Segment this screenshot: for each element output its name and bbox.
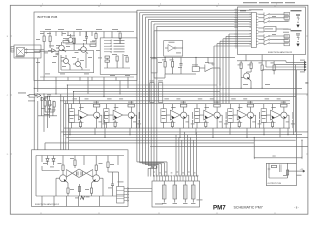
capacitor C102 bbox=[83, 32, 88, 45]
wires from bottom pcb down to bus bbox=[56, 77, 128, 97]
wire y31 to crystal bbox=[154, 31, 251, 58]
left cluster lower wire bbox=[44, 112, 54, 118]
mid circuit wires bbox=[154, 68, 220, 85]
resistor R103 bbox=[71, 36, 75, 51]
bus wire y140 bbox=[69, 139, 296, 141]
diode D2 bbox=[50, 156, 55, 168]
bus wire y85 bbox=[67, 85, 217, 104]
component block K1 bbox=[150, 81, 155, 103]
connector strip J2 bbox=[251, 13, 256, 48]
wire power to fg board left bbox=[33, 98, 35, 150]
mains wires to bottom pcb bbox=[25, 49, 45, 53]
gate G6 bbox=[258, 41, 288, 45]
tiny print line top right bbox=[243, 2, 295, 3]
connector pin list in sub-board bbox=[104, 40, 125, 53]
sub-board box upper right bbox=[100, 38, 137, 74]
coupling capacitor Ca bbox=[77, 172, 79, 176]
output transformer T2 bbox=[173, 181, 178, 204]
sub-board box lower left bbox=[59, 51, 94, 73]
bus wire y94 bbox=[34, 93, 308, 95]
resistor R102 bbox=[47, 33, 51, 48]
bus drops into amp connector bbox=[176, 132, 196, 177]
potentiometer P2 bbox=[296, 34, 300, 46]
wire mains down left bbox=[33, 58, 35, 96]
label VOL CON upper bbox=[291, 10, 302, 11]
svg-text:FUNCTION GEN PCB 1/2: FUNCTION GEN PCB 1/2 bbox=[35, 204, 60, 206]
diode D1 bbox=[43, 156, 49, 166]
resistor R402 bbox=[95, 163, 102, 171]
resistor R301 bbox=[238, 61, 243, 89]
fg1 mid components bbox=[56, 178, 103, 198]
op-amp U202 bbox=[199, 57, 220, 71]
label A right edge bbox=[305, 82, 308, 85]
svg-text:SCHEMATIC PM7: SCHEMATIC PM7 bbox=[234, 206, 263, 210]
amplifier stage 3 (transistor pair) bbox=[161, 99, 195, 129]
resistor R105 horizontal bbox=[63, 38, 69, 43]
resistor R120 bbox=[42, 97, 47, 112]
transistor Q102 bbox=[78, 43, 88, 54]
resistor R302 bbox=[248, 61, 253, 72]
amp pcb connector box bbox=[152, 181, 200, 207]
bottom pcb wire y51 bbox=[34, 50, 59, 52]
fg board riser wires bbox=[61, 94, 69, 150]
bottom pcb rail drop wires bbox=[44, 32, 92, 37]
fg2 bottom drops bbox=[246, 55, 262, 61]
transistor Q104 bbox=[61, 55, 70, 65]
bottom pcb misc flecks bbox=[45, 29, 118, 74]
resistor R202 bbox=[170, 57, 174, 74]
amplifier row rail drops bbox=[70, 128, 288, 137]
crystal X1 bbox=[151, 57, 162, 78]
wire junction dots bbox=[34, 57, 303, 141]
svg-text:OUTPUT PCB: OUTPUT PCB bbox=[268, 183, 282, 185]
label MAINS PCB bbox=[16, 56, 25, 57]
bus wire y88 bbox=[34, 87, 302, 89]
bottom pcb bottom rail wire bbox=[40, 76, 134, 78]
fg1 top rail bbox=[36, 155, 124, 157]
fg1 right connector bbox=[117, 182, 129, 204]
output pcb lower fleck bbox=[297, 174, 302, 177]
component block K2 bbox=[158, 81, 163, 103]
wire to output arrow 2 bbox=[274, 64, 306, 66]
resistor R104 bbox=[117, 31, 121, 44]
capacitor C201 bbox=[178, 57, 183, 74]
bus wire y146 bbox=[150, 145, 308, 147]
bus wire y132 bbox=[61, 131, 308, 133]
amp pcb label flecks bbox=[155, 200, 203, 205]
bus wire y135 bbox=[64, 134, 302, 136]
transistor Q401 bbox=[56, 171, 68, 184]
transistor Q106 bbox=[66, 34, 75, 44]
sub-board right components bbox=[104, 54, 130, 68]
sub-board2 feed wires bbox=[104, 32, 120, 45]
bottom pcb lower drop wires bbox=[44, 77, 128, 81]
IC U201 bbox=[192, 57, 199, 71]
mains connector bbox=[17, 48, 25, 56]
svg-text:PM7: PM7 bbox=[213, 204, 226, 211]
bottom pcb wire y44 bbox=[66, 38, 97, 44]
left frame edge connector bbox=[11, 47, 14, 53]
resistor R403 bbox=[70, 158, 76, 168]
svg-text:BOTTOM PCB: BOTTOM PCB bbox=[38, 15, 58, 19]
resistor R303 bbox=[259, 61, 264, 89]
bus wire y143 bbox=[45, 142, 254, 144]
fg1 bottom band drops bbox=[42, 196, 100, 206]
connector strip pins bbox=[250, 14, 259, 44]
right circuit top wire bbox=[237, 60, 286, 62]
bus B vertical drops from function gen bbox=[214, 34, 251, 103]
amp connector pin row bbox=[153, 175, 198, 181]
label VOL CON lower bbox=[291, 30, 302, 31]
gate G3 bbox=[258, 20, 288, 24]
output transformer T4 bbox=[191, 181, 196, 204]
transistor Q101 bbox=[56, 42, 66, 52]
gate G4 bbox=[258, 34, 288, 38]
op-amp sub-circuit box U203 bbox=[164, 41, 183, 57]
resistor R404 bbox=[107, 162, 114, 172]
amplifier bottom rail bbox=[64, 127, 290, 129]
bus wire y96.6 bbox=[44, 96, 296, 98]
coupling capacitor Cb bbox=[81, 172, 83, 176]
fg1 bottom rail bbox=[36, 195, 124, 197]
right circuit drops bbox=[243, 61, 286, 89]
output wire with arrow bbox=[288, 169, 305, 172]
bottom pcb vertical x44 bbox=[43, 48, 45, 77]
capacitor C402 bbox=[108, 172, 114, 196]
capacitor C120 bbox=[48, 108, 51, 112]
output transformer T3 bbox=[183, 181, 188, 204]
OUTPUT PCB board outline bbox=[266, 163, 296, 185]
bus wire y91.6 bbox=[74, 92, 221, 104]
svg-text:- 8 -: - 8 - bbox=[294, 206, 299, 210]
transistor Q103 dark bbox=[48, 46, 56, 53]
fuse F401 bbox=[81, 196, 90, 200]
resistor R304 bbox=[271, 61, 276, 75]
bus wire y137 bbox=[66, 136, 308, 138]
left riser wires bbox=[44, 94, 48, 150]
amplifier stage 4 (transistor pair) bbox=[194, 99, 228, 129]
wire to output arrow 3 bbox=[266, 61, 306, 68]
wire bus to output pcb bbox=[254, 137, 302, 157]
amp connector pin numbers bbox=[153, 172, 195, 174]
amplifier stage 2 (transistor pair) bbox=[104, 99, 142, 129]
amplifier top rail bbox=[64, 103, 290, 105]
fg1 connector wires bbox=[108, 172, 152, 192]
wire to output arrow 4 bbox=[262, 69, 306, 73]
bottom pcb extra flecks bbox=[36, 33, 130, 76]
svg-text:FUNCTION GEN PCB 2/2: FUNCTION GEN PCB 2/2 bbox=[268, 52, 293, 54]
right vertical wire pair bbox=[293, 55, 296, 164]
resistor R101 bbox=[40, 33, 45, 48]
bus wire y100.8 bbox=[60, 97, 290, 104]
label function gen pcb top bbox=[249, 8, 263, 11]
mid circuit top wire bbox=[150, 56, 235, 58]
resistor R201 bbox=[162, 57, 166, 74]
frame zone numerals bbox=[7, 4, 278, 156]
edge connector comb bbox=[234, 9, 238, 49]
resistor R107 bbox=[92, 32, 97, 45]
transistor Q105 bbox=[73, 58, 82, 68]
resistor R401 bbox=[58, 163, 65, 171]
transistor Q301 bbox=[241, 72, 251, 81]
fg1 left wires bbox=[36, 156, 60, 197]
wire power to fg board right bbox=[37, 101, 39, 150]
FUNCTION GEN PCB 1/2 board outline bbox=[32, 150, 129, 207]
resistor R106 horizontal bbox=[90, 42, 96, 47]
fg1 emitter resistors bbox=[67, 183, 93, 196]
fg2 misc flecks bbox=[240, 11, 291, 35]
resistor R122 bbox=[52, 101, 56, 112]
fg1 rail drops bbox=[42, 156, 118, 166]
output pcb components bbox=[268, 163, 289, 178]
ribbon cable bus A (function gen to amp connector) bbox=[137, 10, 251, 176]
transistor Q402 bbox=[92, 171, 104, 184]
sub-board internal wires bbox=[61, 53, 90, 70]
FUNCTION GEN PCB 2/2 board outline bbox=[238, 7, 306, 55]
logic block U3 bbox=[258, 27, 288, 32]
dimension line 3.0 bbox=[254, 156, 302, 159]
gate G1 bbox=[258, 12, 288, 16]
potentiometer P1 bbox=[296, 14, 300, 27]
MAINS PCB box bbox=[14, 45, 41, 58]
wire mains down right bbox=[37, 58, 39, 92]
wire to output arrow 1 bbox=[286, 60, 306, 64]
bottom pcb top rail wire bbox=[40, 31, 134, 33]
amplifier stage 6 (transistor pair) bbox=[261, 99, 295, 129]
BOTTOM PCB board outline bbox=[34, 12, 137, 81]
power rectifier cluster bbox=[18, 93, 45, 102]
cross coupling wires bbox=[66, 169, 92, 178]
gate output terminal rects lower bbox=[284, 35, 290, 46]
output transformer T1 bbox=[162, 181, 167, 204]
resistor R121 bbox=[47, 95, 51, 113]
gate G5 bbox=[258, 38, 288, 42]
gate G2 bbox=[258, 16, 288, 20]
gate output terminal rects upper bbox=[284, 12, 290, 21]
capacitor C101 bbox=[53, 53, 59, 57]
left wire y115.8 bbox=[38, 97, 57, 116]
amplifier stage 5 (transistor pair) bbox=[228, 99, 262, 129]
amplifier stage 1 (transistor pair) bbox=[69, 99, 107, 129]
